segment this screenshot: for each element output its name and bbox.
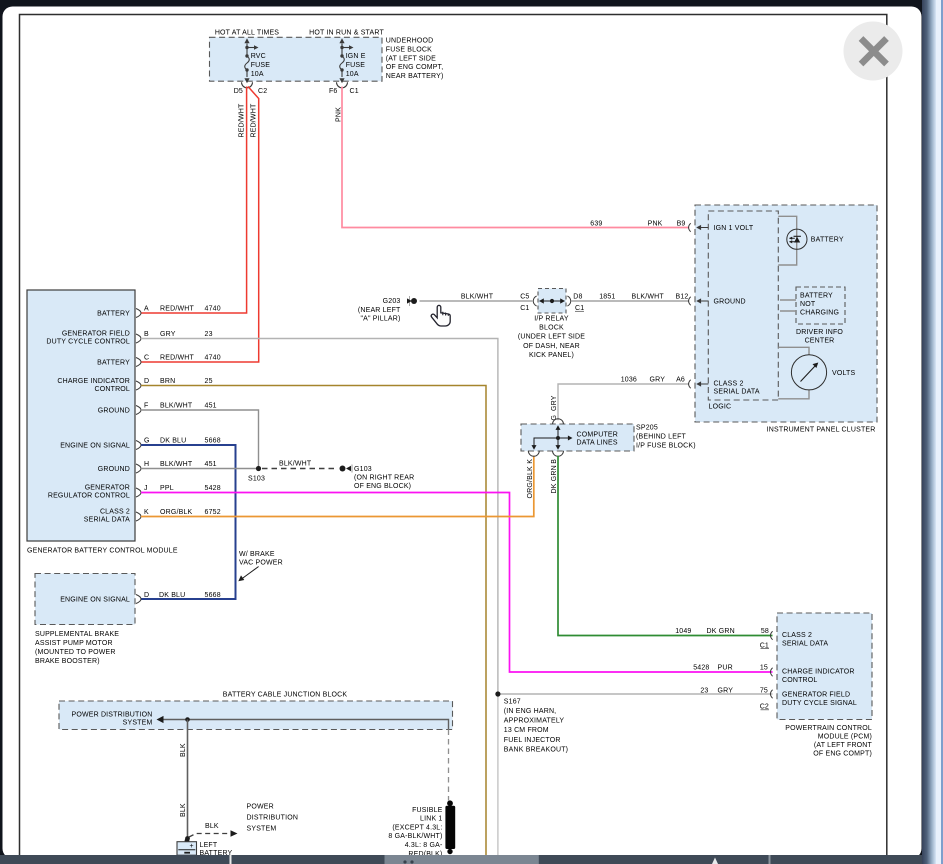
- svg-text:J: J: [144, 485, 148, 492]
- svg-text:G203: G203: [383, 298, 401, 305]
- svg-text:MODULE (PCM): MODULE (PCM): [818, 734, 872, 741]
- powertrain control module box: [777, 613, 872, 720]
- module left labels: [46, 311, 130, 524]
- svg-text:GRY: GRY: [551, 395, 558, 411]
- wire GRY IPC pin A6 to computer data lines: [558, 384, 689, 420]
- close button: [844, 22, 903, 81]
- wire DK GRN computer data lines pin B to PCM pin 58: [558, 456, 773, 636]
- module pin row labels: [144, 306, 221, 517]
- svg-text:CLASS 2: CLASS 2: [782, 632, 812, 639]
- underhood fuse block box: [210, 37, 383, 81]
- svg-text:SERIAL DATA: SERIAL DATA: [84, 517, 130, 524]
- connector arc under RVC fuse: [242, 82, 253, 88]
- svg-text:DK BLU: DK BLU: [159, 592, 185, 599]
- label POWERTRAIN CONTROL MODULE: [785, 725, 872, 758]
- wire BLK/WHT pin H to S103: [141, 468, 259, 470]
- svg-text:RED/WHT: RED/WHT: [251, 103, 258, 137]
- svg-text:F: F: [144, 403, 148, 410]
- svg-text:CHARGE INDICATOR: CHARGE INDICATOR: [57, 378, 130, 385]
- right scrollbar strip: [922, 0, 943, 864]
- svg-text:D5: D5: [234, 88, 243, 95]
- svg-text:8 GA-BLK/WHT): 8 GA-BLK/WHT): [388, 833, 442, 840]
- svg-text:D: D: [144, 378, 149, 385]
- bottom toolbar: [0, 855, 922, 864]
- module pin connectors (chevrons): [136, 309, 141, 522]
- svg-text:(BEHIND LEFT: (BEHIND LEFT: [636, 434, 687, 441]
- svg-text:GRY: GRY: [650, 376, 666, 383]
- wire DK BLU pin G to supplemental pump pin D: [141, 445, 236, 599]
- svg-text:6752: 6752: [205, 509, 221, 516]
- fuse RVC label: [251, 53, 271, 78]
- svg-text:DK GRN: DK GRN: [707, 628, 735, 635]
- svg-text:G103: G103: [354, 466, 372, 473]
- svg-text:I/P FUSE BLOCK): I/P FUSE BLOCK): [636, 443, 696, 450]
- svg-text:SUPPLEMENTAL BRAKE: SUPPLEMENTAL BRAKE: [35, 631, 119, 638]
- svg-text:OF ENG COMPT,: OF ENG COMPT,: [386, 64, 444, 71]
- svg-text:A6: A6: [676, 376, 685, 383]
- svg-text:C1: C1: [350, 88, 359, 95]
- svg-text:ENGINE ON SIGNAL: ENGINE ON SIGNAL: [60, 443, 130, 450]
- wire BLK/WHT relay to IPC pin B12: [571, 300, 689, 302]
- svg-text:PNK: PNK: [648, 220, 663, 227]
- svg-text:23: 23: [205, 331, 213, 338]
- svg-text:(ON RIGHT REAR: (ON RIGHT REAR: [354, 475, 414, 482]
- svg-text:HOT IN RUN & START: HOT IN RUN & START: [309, 30, 384, 37]
- svg-text:10A: 10A: [251, 71, 264, 78]
- fusible link 1: [445, 800, 455, 854]
- svg-text:VAC POWER: VAC POWER: [239, 560, 283, 567]
- junction dot: [185, 717, 190, 722]
- svg-text:LINK 1: LINK 1: [420, 816, 442, 823]
- PCM pin 15 connector: [770, 668, 772, 676]
- ground G203: [358, 296, 417, 323]
- wire BLK/WHT dashed S103 to G103: [262, 468, 334, 470]
- svg-text:BLK: BLK: [205, 823, 219, 830]
- svg-text:15: 15: [760, 664, 768, 671]
- fuse IGN E FUSE 10A: [339, 38, 353, 83]
- svg-text:23: 23: [700, 687, 708, 694]
- svg-text:BATTERY: BATTERY: [97, 360, 130, 367]
- svg-text:RED/WHT: RED/WHT: [239, 103, 246, 137]
- svg-text:NEAR BATTERY): NEAR BATTERY): [386, 73, 444, 80]
- svg-text:FUSE: FUSE: [251, 62, 271, 69]
- svg-text:GROUND: GROUND: [98, 466, 130, 473]
- svg-text:K: K: [144, 509, 149, 516]
- svg-text:COMPUTER: COMPUTER: [577, 431, 619, 438]
- svg-text:RVC: RVC: [251, 53, 266, 60]
- svg-text:BATTERY: BATTERY: [97, 311, 130, 318]
- svg-text:BLK: BLK: [180, 743, 187, 757]
- svg-text:B: B: [144, 331, 149, 338]
- label BATTERY NOT CHARGING: [800, 293, 839, 317]
- svg-text:(AT LEFT FRONT: (AT LEFT FRONT: [814, 742, 873, 749]
- generator battery control module box: [27, 290, 135, 541]
- wire PNK from F6 to instrument cluster pin B9: [342, 87, 689, 228]
- supplemental pump pin D connector: [136, 595, 141, 604]
- svg-text:B: B: [551, 459, 558, 464]
- svg-text:BANK BREAKOUT): BANK BREAKOUT): [504, 746, 568, 753]
- svg-text:OF ENG COMPT): OF ENG COMPT): [813, 751, 872, 758]
- svg-text:DK GRN: DK GRN: [551, 465, 558, 493]
- svg-text:4.3L: 8 GA-: 4.3L: 8 GA-: [405, 842, 443, 849]
- svg-text:BRAKE BOOSTER): BRAKE BOOSTER): [35, 658, 100, 665]
- gauge VOLTS: [791, 355, 826, 390]
- svg-text:SP205: SP205: [636, 425, 658, 432]
- svg-text:GENERATOR BATTERY CONTROL MODU: GENERATOR BATTERY CONTROL MODULE: [27, 548, 178, 555]
- I/P relay block caption: [518, 315, 585, 359]
- svg-text:FUSE: FUSE: [346, 62, 366, 69]
- svg-text:BLK/WHT: BLK/WHT: [632, 293, 665, 300]
- label FUSIBLE LINK 1: [388, 807, 443, 858]
- driver info center stubs: [780, 300, 796, 311]
- connector arc top (pin G): [553, 419, 564, 425]
- svg-text:KICK PANEL): KICK PANEL): [529, 352, 574, 359]
- svg-text:INSTRUMENT PANEL CLUSTER: INSTRUMENT PANEL CLUSTER: [767, 427, 876, 434]
- PCM pin 75 connector: [770, 690, 772, 698]
- svg-text:G: G: [144, 438, 150, 445]
- svg-text:PPL: PPL: [160, 485, 174, 492]
- svg-text:BLK/WHT: BLK/WHT: [160, 403, 193, 410]
- volts gauge wires: [778, 347, 809, 399]
- svg-text:GRY: GRY: [718, 687, 734, 694]
- ground G103: [340, 465, 415, 491]
- I/P relay block box: [538, 289, 566, 314]
- svg-text:D8: D8: [573, 293, 582, 300]
- svg-text:1036: 1036: [621, 376, 637, 383]
- svg-text:639: 639: [590, 220, 602, 227]
- wire dashed junction block to fusible link: [448, 730, 450, 801]
- svg-text:GENERATOR FIELD: GENERATOR FIELD: [782, 692, 850, 699]
- IPC pin B9 connector: [689, 223, 709, 231]
- svg-text:5668: 5668: [205, 438, 221, 445]
- svg-text:UNDERHOOD: UNDERHOOD: [386, 38, 434, 45]
- svg-text:ORG/BLK: ORG/BLK: [527, 466, 534, 499]
- svg-text:DUTY CYCLE SIGNAL: DUTY CYCLE SIGNAL: [782, 700, 857, 707]
- svg-text:BLOCK: BLOCK: [539, 325, 564, 332]
- svg-text:CHARGING: CHARGING: [800, 310, 839, 317]
- svg-text:B9: B9: [677, 220, 686, 227]
- IPC pin B12 connector: [689, 297, 709, 305]
- svg-text:RED/WHT: RED/WHT: [160, 355, 194, 362]
- svg-text:(EXCEPT 4.3L:: (EXCEPT 4.3L:: [392, 824, 442, 831]
- connector arc under IGN E fuse: [337, 82, 348, 88]
- connector arc bottom (pin B): [553, 451, 564, 457]
- wire ORG/BLK pin K to computer data lines pin K: [141, 456, 534, 517]
- svg-text:GENERATOR FIELD: GENERATOR FIELD: [62, 331, 130, 338]
- logic box: [708, 211, 778, 400]
- svg-text:GROUND: GROUND: [98, 408, 130, 415]
- svg-text:1851: 1851: [599, 293, 615, 300]
- svg-text:SYSTEM: SYSTEM: [123, 720, 153, 727]
- wire BLK junction block bus: [157, 716, 449, 730]
- battery LEFT BATTERY: [177, 838, 233, 857]
- label W/ BRAKE VAC POWER with arrow: [238, 551, 283, 581]
- svg-text:D: D: [144, 592, 149, 599]
- relay block internal bus: [539, 298, 565, 303]
- svg-text:VOLTS: VOLTS: [832, 370, 855, 377]
- svg-text:BATTERY CABLE JUNCTION BLOCK: BATTERY CABLE JUNCTION BLOCK: [223, 692, 348, 699]
- label POWER DISTRIBUTION SYSTEM with arrow: [71, 712, 152, 727]
- PCM pin 58 connector: [770, 631, 772, 639]
- svg-text:451: 451: [205, 403, 217, 410]
- svg-text:10A: 10A: [346, 71, 359, 78]
- svg-text:C2: C2: [258, 88, 267, 95]
- fuse RVC FUSE 10A: [244, 38, 258, 83]
- fuse IGN E label: [346, 53, 366, 78]
- svg-text:A: A: [144, 306, 149, 313]
- svg-text:OF ENG BLOCK): OF ENG BLOCK): [354, 483, 411, 490]
- svg-text:LEFT: LEFT: [200, 842, 218, 849]
- battery telltale circuit wires: [778, 216, 796, 265]
- wire GRY pin B to S167 to PCM pin 75: [141, 339, 773, 695]
- svg-text:DK BLU: DK BLU: [160, 438, 186, 445]
- svg-text:OF DASH, NEAR: OF DASH, NEAR: [523, 343, 580, 350]
- svg-text:+: +: [190, 843, 194, 850]
- svg-text:S167: S167: [504, 698, 521, 705]
- relay block connector arcs: [533, 296, 571, 306]
- svg-text:(IN ENG HARN,: (IN ENG HARN,: [504, 708, 557, 715]
- svg-text:POWERTRAIN CONTROL: POWERTRAIN CONTROL: [785, 725, 872, 732]
- svg-text:5428: 5428: [693, 664, 709, 671]
- svg-text:4740: 4740: [205, 306, 221, 313]
- svg-text:GENERATOR: GENERATOR: [85, 485, 130, 492]
- svg-text:ENGINE ON SIGNAL: ENGINE ON SIGNAL: [60, 597, 130, 604]
- wire PPL pin J to PCM pin 15: [141, 493, 773, 673]
- svg-text:NOT: NOT: [800, 301, 816, 308]
- svg-text:CONTROL: CONTROL: [782, 677, 817, 684]
- svg-text:CENTER: CENTER: [805, 337, 835, 344]
- svg-text:K: K: [527, 459, 534, 464]
- svg-text:5428: 5428: [205, 485, 221, 492]
- svg-text:ORG/BLK: ORG/BLK: [160, 509, 193, 516]
- svg-text:PUR: PUR: [718, 664, 733, 671]
- battery cable junction block box: [59, 701, 453, 730]
- svg-text:APPROXIMATELY: APPROXIMATELY: [504, 718, 565, 725]
- svg-text:BLK/WHT: BLK/WHT: [279, 460, 312, 467]
- connector arc bottom (pin K): [528, 451, 539, 457]
- wire BLK/WHT G203 to I/P relay block: [420, 300, 533, 302]
- computer data lines internal bus: [532, 425, 573, 449]
- svg-text:BLK/WHT: BLK/WHT: [461, 293, 494, 300]
- svg-text:C1: C1: [520, 305, 529, 312]
- svg-text:DRIVER INFO: DRIVER INFO: [796, 329, 843, 336]
- svg-text:FUSE BLOCK: FUSE BLOCK: [386, 46, 432, 53]
- svg-text:SERIAL DATA: SERIAL DATA: [714, 389, 760, 396]
- IPC pin A6 connector: [689, 380, 709, 388]
- svg-text:FUEL INJECTOR: FUEL INJECTOR: [504, 737, 561, 744]
- svg-text:DATA LINES: DATA LINES: [577, 440, 618, 447]
- svg-text:13 CM FROM: 13 CM FROM: [504, 727, 549, 734]
- svg-text:H: H: [144, 461, 149, 468]
- svg-text:B12: B12: [676, 293, 689, 300]
- wire BLK down to left battery: [187, 720, 189, 842]
- wire BLK dashed to power distribution: [189, 823, 238, 837]
- svg-text:POWER DISTRIBUTION: POWER DISTRIBUTION: [71, 712, 152, 719]
- svg-text:DISTRIBUTION: DISTRIBUTION: [247, 815, 299, 822]
- wire RED/WHT from C2 down to module pin C: [141, 87, 259, 363]
- svg-text:IGN E: IGN E: [346, 53, 366, 60]
- svg-text:75: 75: [760, 687, 768, 694]
- underhood fuse block location label: [386, 38, 444, 81]
- svg-text:4740: 4740: [205, 355, 221, 362]
- splice S103: [256, 466, 261, 471]
- svg-text:5668: 5668: [205, 592, 221, 599]
- battery telltale indicator U-battery: [787, 229, 807, 249]
- svg-text:BATTERY: BATTERY: [811, 237, 844, 244]
- instrument panel cluster box: [695, 205, 877, 422]
- label SUPPLEMENTAL BRAKE ASSIST PUMP MOTOR: [35, 631, 119, 665]
- svg-text:GRY: GRY: [160, 331, 176, 338]
- svg-text:451: 451: [205, 461, 217, 468]
- svg-text:BLK/WHT: BLK/WHT: [160, 461, 193, 468]
- wire BRN pin D down off page: [141, 386, 486, 856]
- svg-text:(AT LEFT SIDE: (AT LEFT SIDE: [386, 55, 436, 62]
- svg-text:HOT AT ALL TIMES: HOT AT ALL TIMES: [215, 30, 279, 37]
- label SP205: [636, 425, 696, 450]
- svg-text:GROUND: GROUND: [714, 299, 746, 306]
- svg-text:C: C: [144, 355, 149, 362]
- wire RED/WHT from D5 down to module pin A: [141, 87, 247, 314]
- svg-text:BATTERY: BATTERY: [800, 293, 833, 300]
- svg-text:RED/WHT: RED/WHT: [160, 306, 194, 313]
- svg-text:PNK: PNK: [335, 107, 342, 122]
- mouse cursor: [431, 305, 450, 326]
- svg-text:I/P RELAY: I/P RELAY: [534, 315, 569, 322]
- svg-text:(UNDER LEFT SIDE: (UNDER LEFT SIDE: [518, 334, 585, 341]
- svg-text:CONTROL: CONTROL: [95, 386, 130, 393]
- svg-text:POWER: POWER: [247, 804, 274, 811]
- computer data lines box: [521, 424, 634, 451]
- driver info center box: [796, 287, 845, 324]
- splice dot on BLK wire: [185, 836, 190, 841]
- svg-text:FUSIBLE: FUSIBLE: [412, 807, 443, 814]
- svg-text:S103: S103: [248, 476, 265, 483]
- svg-text:(MOUNTED TO POWER: (MOUNTED TO POWER: [35, 649, 116, 656]
- svg-text:LOGIC: LOGIC: [709, 404, 732, 411]
- svg-text:CLASS 2: CLASS 2: [100, 509, 130, 516]
- relay block pin labels: [520, 293, 584, 312]
- svg-text:25: 25: [205, 378, 213, 385]
- svg-text:SERIAL DATA: SERIAL DATA: [782, 641, 828, 648]
- splice S167: [495, 691, 500, 696]
- label POWER DISTRIBUTION SYSTEM (bottom): [247, 804, 299, 833]
- svg-text:58: 58: [761, 628, 769, 635]
- svg-text:ASSIST PUMP MOTOR: ASSIST PUMP MOTOR: [35, 640, 113, 647]
- svg-text:BLK: BLK: [180, 803, 187, 817]
- svg-text:F6: F6: [329, 88, 338, 95]
- svg-text:W/ BRAKE: W/ BRAKE: [239, 551, 275, 558]
- svg-text:DUTY CYCLE CONTROL: DUTY CYCLE CONTROL: [46, 339, 130, 346]
- svg-text:1049: 1049: [675, 628, 691, 635]
- svg-text:CHARGE INDICATOR: CHARGE INDICATOR: [782, 669, 855, 676]
- svg-text:"A" PILLAR): "A" PILLAR): [360, 316, 400, 323]
- supplemental brake assist pump motor box: [35, 574, 135, 625]
- svg-text:C5: C5: [520, 293, 529, 300]
- svg-text:IGN 1 VOLT: IGN 1 VOLT: [714, 225, 754, 232]
- svg-text:REGULATOR CONTROL: REGULATOR CONTROL: [48, 493, 130, 500]
- svg-text:(NEAR LEFT: (NEAR LEFT: [358, 307, 401, 314]
- svg-text:SYSTEM: SYSTEM: [247, 826, 277, 833]
- svg-text:BRN: BRN: [160, 378, 175, 385]
- svg-text:CLASS 2: CLASS 2: [714, 381, 744, 388]
- wire BLK/WHT pin F to S103: [141, 410, 259, 469]
